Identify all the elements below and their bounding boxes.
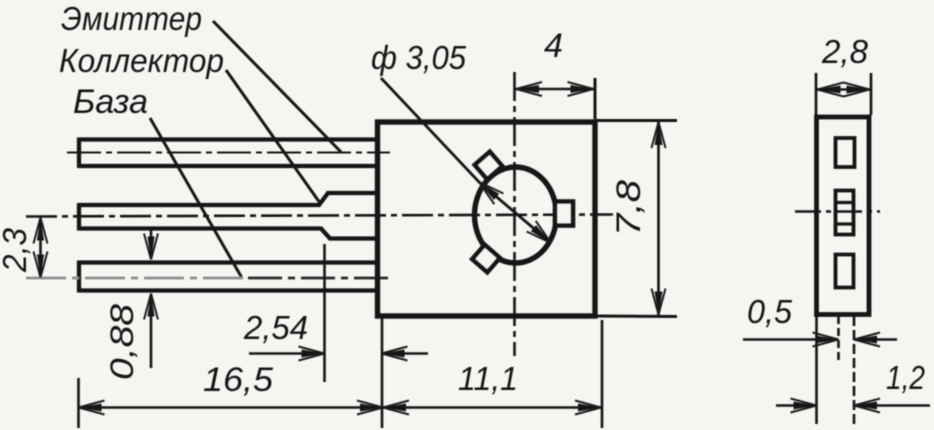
arrowhead diameter upper-left [479,182,499,200]
axis side view [795,210,880,213]
extension line package right edge down [601,320,604,428]
side view pin middle inner bars [835,201,854,204]
svg-text:2,8: 2,8 [821,33,869,70]
side view pin top [836,138,855,167]
svg-text:0,5: 0,5 [747,293,793,330]
package front view outline [378,122,596,316]
svg-text:Эмиттер: Эмиттер [61,0,202,37]
side view pin middle [836,191,854,235]
dimension 11,1 (package width) [383,406,601,409]
dimension 2,54 [249,352,325,355]
extension line left end of leads [77,378,80,428]
svg-text:Коллектор: Коллектор [59,42,224,79]
extension lines below side view [815,316,818,424]
vertical center line of hole [513,72,516,356]
axis main horizontal center line [26,215,613,217]
tab lower-left on hole [472,245,500,272]
leader base [150,118,242,278]
mounting hole circle [475,167,557,263]
tab right on hole [555,202,573,226]
side view package outline [817,117,870,315]
svg-text:4: 4 [544,27,563,65]
axis emitter lead [67,152,390,154]
leader emitter [213,21,341,152]
tab upper-left on hole [475,152,503,179]
svg-text:База: База [73,83,148,121]
dimension 16,5 (lead length) [79,406,384,409]
lead collector (middle pin, stepped) [79,193,377,239]
arrow barbs (open hand-drawn look) [34,82,881,415]
lead base (bottom pin) [79,261,377,293]
dimension 1,2 [776,404,817,407]
lead emitter (top pin) [79,138,377,169]
leader diameter line through hole [381,78,551,243]
extension line lead bend (2,54) [323,244,326,382]
svg-text:2,3: 2,3 [0,227,33,273]
leader collector [226,70,320,203]
svg-text:ф 3,05: ф 3,05 [371,39,467,76]
svg-text:11,1: 11,1 [458,360,518,397]
extension line package left edge down [381,318,384,428]
svg-text:16,5: 16,5 [203,361,273,399]
side view pin bottom [836,255,854,288]
svg-text:7,8: 7,8 [610,180,648,236]
dimension 7,8 (package height) [595,119,677,122]
dimension 2,8 (package thickness) [815,73,818,115]
svg-text:2,54: 2,54 [243,309,308,346]
arrowhead diameter lower-right [531,225,551,243]
svg-text:1,2: 1,2 [886,359,925,396]
dimension 4 (hole center to right edge) [594,78,597,119]
svg-text:0,88: 0,88 [104,304,140,380]
dimension 2,3 (lead pitch) [39,219,42,277]
dimension 0,88 (lead width) [150,228,153,258]
dimension 0,5 (lead thickness) [743,338,839,341]
axis base lead (grey) [26,277,248,280]
